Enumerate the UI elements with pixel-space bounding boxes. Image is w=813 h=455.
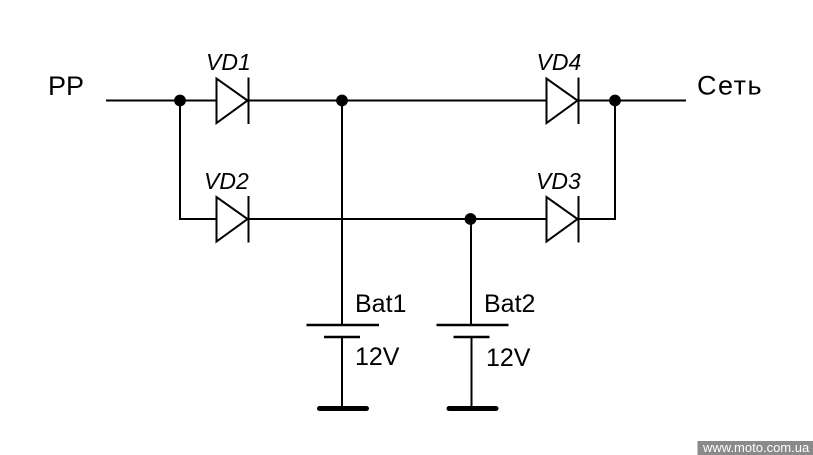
wire middle vertical to Bat1 [341, 101, 343, 326]
battery Bat2 [437, 325, 509, 337]
battery Bat1 [307, 325, 380, 337]
svg-text:Сеть: Сеть [697, 71, 763, 101]
watermark bar [698, 441, 813, 455]
junction node left [174, 95, 186, 107]
wire Bat1 to ground [341, 337, 343, 408]
wire top row middle segment [249, 100, 547, 102]
svg-text:www.moto.com.ua: www.moto.com.ua [702, 440, 810, 455]
svg-text:VD1: VD1 [206, 49, 251, 75]
ground Bat2 [449, 406, 496, 411]
diode VD4 [547, 78, 579, 125]
diode VD2 [217, 196, 249, 243]
svg-text:VD4: VD4 [537, 49, 582, 75]
svg-text:Bat2: Bat2 [484, 290, 535, 318]
wire top row left segment [106, 100, 216, 102]
svg-text:12V: 12V [355, 343, 400, 371]
wire Bat2 vertical [470, 219, 472, 325]
wire right vertical [614, 101, 616, 221]
ground Bat1 [320, 406, 367, 411]
wire bottom row right segment [579, 218, 617, 220]
junction node middle [336, 95, 348, 107]
wire bottom row middle segment [249, 218, 547, 220]
junction node right [609, 95, 621, 107]
svg-text:12V: 12V [486, 344, 531, 372]
wire Bat2 to ground [471, 337, 473, 408]
svg-text:VD3: VD3 [536, 168, 581, 194]
wire top row right segment [579, 100, 687, 102]
junction node Bat2 [465, 213, 477, 225]
svg-text:РР: РР [48, 71, 84, 101]
diode VD1 [217, 78, 249, 125]
wire bottom row left segment [179, 218, 216, 220]
diode VD3 [547, 196, 579, 243]
wire left vertical [179, 101, 181, 221]
svg-text:Bat1: Bat1 [355, 290, 406, 318]
svg-text:VD2: VD2 [204, 168, 249, 194]
